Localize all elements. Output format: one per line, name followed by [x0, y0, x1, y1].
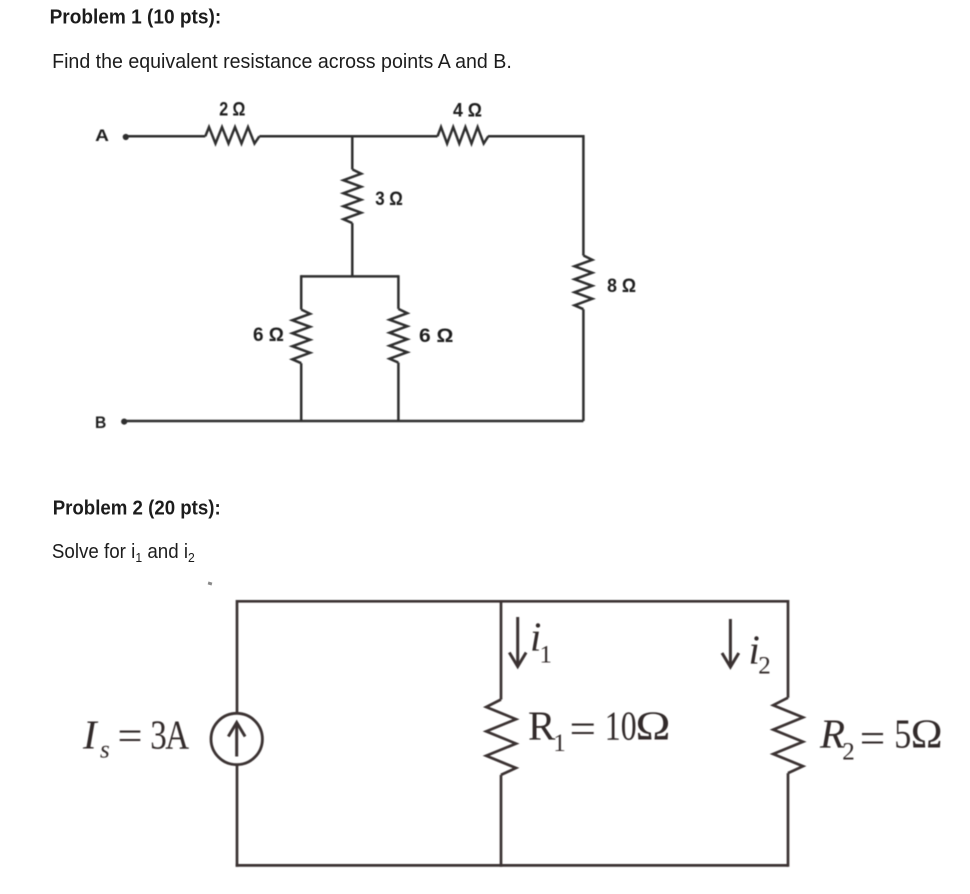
resistor 8 ohm: [575, 256, 593, 310]
svg-text:Ω: Ω: [911, 711, 943, 757]
svg-text:1: 1: [553, 730, 566, 757]
wire 3ohm down to parallel bar: [351, 223, 354, 276]
wire R2 to bottom: [787, 773, 790, 867]
resistor 3 ohm: [343, 169, 361, 223]
svg-text:2 Ω: 2 Ω: [219, 99, 245, 120]
svg-text:Ω: Ω: [636, 703, 671, 749]
bottom wire B: [125, 420, 583, 423]
svg-text:1: 1: [540, 641, 553, 668]
wire A to resistor 2ohm: [127, 135, 205, 138]
resistor 6 ohm right: [390, 309, 408, 363]
svg-text:3 Ω: 3 Ω: [375, 189, 403, 210]
wire right branch to 6ohm: [397, 275, 400, 309]
svg-text:R: R: [819, 711, 845, 757]
resistor 2 ohm: [205, 127, 259, 143]
svg-text:2: 2: [758, 653, 771, 680]
parallel top bar: [301, 275, 399, 278]
stray mark: [208, 582, 213, 586]
node B terminal dot: [121, 419, 127, 425]
svg-text:R: R: [528, 703, 556, 749]
svg-text:8 Ω: 8 Ω: [607, 276, 636, 297]
resistor R1: [486, 700, 516, 775]
resistor R2: [773, 698, 803, 773]
svg-text:Find the equivalent resistance: Find the equivalent resistance across po…: [52, 51, 512, 73]
svg-text:Solve for i1 and i2: Solve for i1 and i2: [52, 541, 195, 565]
svg-text:s: s: [100, 737, 110, 764]
top wire: [237, 600, 788, 603]
wire R1 to bottom: [500, 775, 503, 867]
svg-text:6 Ω: 6 Ω: [253, 325, 284, 346]
svg-text:Problem 2 (20 pts):: Problem 2 (20 pts):: [53, 498, 221, 520]
svg-text:4 Ω: 4 Ω: [453, 101, 482, 122]
wire right side down to 8ohm: [582, 135, 585, 255]
wire 2ohm to 4ohm through top node: [259, 135, 437, 138]
resistor 6 ohm left: [292, 310, 310, 364]
wire middle branch top to R1: [500, 600, 503, 700]
wire right 6ohm to bottom: [397, 363, 400, 421]
current source arrow: [228, 723, 245, 757]
wire left 6ohm to bottom: [300, 363, 303, 421]
wire current source to bottom: [236, 765, 239, 867]
svg-text:=: =: [118, 713, 143, 759]
resistor 4 ohm: [438, 127, 489, 143]
svg-text:2: 2: [842, 738, 855, 765]
wire 8ohm to bottom wire: [582, 309, 585, 421]
wire 4ohm to top-right corner: [488, 135, 585, 138]
svg-text:A: A: [165, 711, 189, 757]
current arrow i1: [509, 617, 526, 667]
svg-text:6 Ω: 6 Ω: [419, 326, 453, 347]
svg-text:B: B: [95, 413, 106, 432]
svg-text:I: I: [82, 711, 99, 757]
svg-text:=: =: [860, 715, 886, 761]
wire left branch to 6ohm: [300, 275, 303, 309]
current source Is circle: [211, 713, 262, 764]
wire left top to current source: [236, 600, 239, 713]
wire right branch top to R2: [787, 600, 790, 698]
current arrow i2: [722, 619, 739, 667]
bottom wire: [236, 864, 788, 867]
svg-text:A: A: [95, 126, 109, 145]
svg-text:Problem 1 (10 pts):: Problem 1 (10 pts):: [50, 7, 222, 29]
svg-text:5: 5: [894, 711, 911, 757]
wire top node down to 3ohm: [351, 136, 354, 169]
svg-text:=: =: [570, 705, 597, 751]
svg-text:10: 10: [605, 703, 637, 749]
node A terminal dot: [123, 134, 129, 140]
